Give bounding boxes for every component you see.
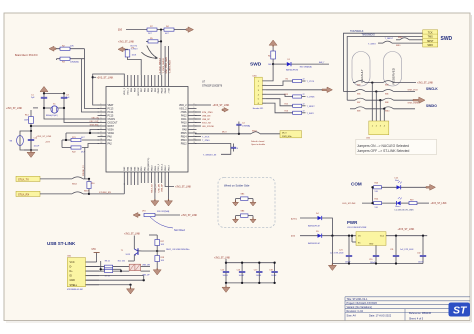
note box Wired on Solder Side [218,178,275,228]
svg-text:PA12: PA12 [181,115,187,118]
wire into regulator [322,235,356,237]
svg-text:VBAT: VBAT [108,104,114,107]
svg-text:5: 5 [101,118,102,120]
net label USB RENUMn [157,250,165,252]
svg-text:Date: 17-AUG-2022: Date: 17-AUG-2022 [369,315,392,318]
svg-text:+3V3_ST_LINK: +3V3_ST_LINK [175,187,191,189]
solder bridge SB12 [251,132,260,134]
wire [40,193,72,195]
svg-text:R2: R2 [286,79,288,81]
leader line Not Fitted [150,217,173,228]
U7 left pin PA1 [98,139,107,141]
svg-text:STLK_RX: STLK_RX [202,123,212,125]
U7 bottom pin PB1 [144,172,146,183]
U7 left pin PA0 [98,136,107,138]
wire from diode node down to CN4 pin1 [262,64,273,81]
ground below R18 [156,262,158,269]
resistor R14 100K [29,117,34,124]
resistor R1 10K vertical [272,47,274,51]
svg-text:VSSA: VSSA [108,129,115,132]
svg-text:VDD_1: VDD_1 [162,163,164,171]
svg-text:VDDA: VDDA [108,132,115,135]
LED LD1 red row [373,186,397,188]
svg-text:SB12: SB12 [252,130,257,132]
resistor R13 22 [293,95,302,98]
svg-text:STLK_RX: STLK_RX [152,183,154,193]
wire collector [138,250,157,252]
wire R17 to node [156,246,158,252]
svg-text:PWR_ENn: PWR_ENn [282,136,292,138]
U7 top pin PA14 [161,75,163,87]
U7 bottom pin VSS_1 [157,172,159,183]
svg-text:Wired on Solder Side: Wired on Solder Side [224,184,250,188]
svg-text:PWR: PWR [347,220,358,225]
svg-text:2: 2 [194,111,195,113]
wires to CN2 [371,83,373,121]
svg-text:MCO: MCO [282,133,287,135]
resistor R5 [148,40,158,43]
svg-text:+3V3_ST_LINK: +3V3_ST_LINK [214,257,230,259]
U7 top pin PB9 [130,75,132,87]
node STLK_TX yellow label [16,176,40,181]
svg-text:SB3: SB3 [357,84,360,86]
capacitor C6 on T_SWDIO [233,144,235,148]
svg-text:PA0: PA0 [108,136,113,139]
svg-text:0: 0 [194,104,195,106]
svg-text:R13: R13 [285,94,288,96]
ground [154,199,156,201]
svg-text:PC15: PC15 [108,116,115,118]
U7 top pin PB3 [154,75,156,87]
svg-text:Default: closed: Default: closed [251,140,264,143]
wire [82,59,100,112]
svg-text:T_JRST_PB4X: T_JRST_PB4X [169,59,171,73]
svg-text:R15: R15 [285,104,288,106]
U7 bottom pin PB11 [154,172,156,183]
wire CN4 pin3 to arrow [266,89,322,91]
wires below U7 bottom pins [123,183,125,185]
svg-text:GND: GND [369,243,374,245]
wire [157,29,164,31]
resistor R18 10K [155,256,160,262]
connector CN2 yellow [369,121,389,135]
power U5V symbol [96,253,98,263]
wire joining LED rows [372,187,374,203]
wire CN4 pin4 [266,94,293,96]
capacitor C4 1nF N/A [238,122,240,125]
svg-text:TMS: TMS [428,36,433,39]
net USB_DP stub [195,118,201,120]
vertical net wire STLINK_TX [84,160,86,179]
svg-text:+3V3_ST_LINK: +3V3_ST_LINK [398,228,415,231]
svg-text:SWO: SWO [427,44,433,47]
svg-text:STLINK_TX: STLINK_TX [83,165,85,176]
svg-text:T_JTDO: T_JTDO [131,49,139,51]
ground [235,201,237,203]
wire En [351,236,353,242]
wire to arrow [174,29,186,31]
capacitor C17 100nF [258,263,260,272]
svg-text:SB5: SB5 [357,93,360,95]
svg-text:C6: C6 [236,148,238,150]
resistor R21 4K7 [82,139,99,141]
svg-text:USB_DM: USB_DM [158,184,160,193]
svg-text:Jumpers ON --> NUCLEO Selecte: Jumpers ON --> NUCLEO Selected [357,144,409,148]
svg-text:BAT60JFILM: BAT60JFILM [286,68,298,71]
svg-text:VSS_3: VSS_3 [128,87,130,95]
svg-text:Board Ident: PC13=0: Board Ident: PC13=0 [15,54,38,57]
wire [158,40,161,42]
U7 bottom pin PB10 [151,172,153,183]
power label +3V3_ST_LINK at VDD_1 [165,183,174,187]
power arrow at VDD_2 label [222,108,229,113]
power port arrow above R1 [272,45,274,47]
svg-text:USB_DM: USB_DM [202,116,211,118]
svg-text:22: 22 [303,79,305,81]
svg-text:Green: Green [395,205,400,208]
svg-text:+3V3_ST_LINK: +3V3_ST_LINK [97,77,114,80]
wire [40,178,72,180]
U7 top pin PB7 [140,75,142,87]
wire CN4 pin2 [266,81,293,85]
U7 right pin PA11 [188,118,197,120]
svg-text:R10: R10 [91,183,94,185]
U7 bottom pin PA4 [127,172,129,183]
svg-text:22: 22 [303,104,305,106]
wire R6 to BOOT0 pin [128,57,142,75]
svg-text:SWCLK: SWCLK [426,87,438,91]
svg-text:Variant: [No Variations]: Variant: [No Variations] [347,306,373,309]
svg-text:JTMS: JTMS [180,112,187,114]
wire SHELL [86,284,131,286]
svg-text:Title: STLINK-V2-1: Title: STLINK-V2-1 [347,298,368,301]
ST logo [449,303,471,317]
ground caps bank [225,283,227,286]
svg-text:M701B08E-05-SM: M701B08E-05-SM [67,289,83,291]
svg-text:22: 22 [303,94,305,96]
U7 left pin VDDA [98,132,107,134]
U7 top pin PA15 [157,75,159,87]
svg-text:ID: ID [70,275,73,278]
svg-text:SB19: SB19 [396,45,400,47]
svg-text:USB_DM: USB_DM [142,264,150,266]
wire crossover strokes [141,46,156,59]
ESD protection USBLC6 [129,264,140,270]
svg-text:TCK/SWCLK: TCK/SWCLK [350,31,364,33]
svg-text:JTCK: JTCK [168,87,170,93]
svg-text:STM_JTCK: STM_JTCK [408,90,419,92]
svg-text:PB11: PB11 [155,165,157,171]
svg-text:SB6: SB6 [385,93,388,95]
svg-text:100K: 100K [132,54,137,56]
svg-text:C32: C32 [417,253,420,255]
net label T_SWDIO_IN text [195,144,231,155]
svg-text:T_SWO: T_SWO [368,44,376,46]
resistor R22 4K7 [82,144,99,148]
capacitor C16 100nF [241,263,243,272]
power port right arrow 5V row [186,27,194,33]
resistor R2 22 [293,79,302,82]
U7 top pin PB4 [151,75,153,87]
diode LD2 green [397,201,401,205]
svg-text:Not Fitted: Not Fitted [174,229,185,232]
svg-text:VSS_1: VSS_1 [158,163,160,171]
row3 arrow [413,97,425,103]
capacitor C32 output 2 [422,236,424,256]
svg-text:PA11: PA11 [181,118,187,121]
svg-text:PA12_ON USB RENUMn: PA12_ON USB RENUMn [166,248,190,251]
U7 bottom pin VDD_1 [161,172,163,183]
U7 right pin JTMS [188,111,197,113]
svg-text:SB10: SB10 [385,111,389,113]
svg-text:1: 1 [194,107,195,109]
U7 left pin PC14 [98,111,107,113]
ground wire VSS_1 [154,183,156,199]
U7 right pin PB15 [188,132,197,134]
ground rail PWR [332,263,423,265]
svg-text:6: 6 [101,121,102,123]
ground wire 2 [168,183,170,199]
svg-text:4: 4 [194,118,195,120]
wire 5V row [126,29,147,31]
svg-text:BAT60JFILM: BAT60JFILM [308,224,320,227]
svg-text:10: 10 [101,135,103,137]
svg-text:VDD_3: VDD_3 [124,87,126,95]
svg-text:PC14: PC14 [108,112,115,114]
svg-text:PB15: PB15 [181,133,187,135]
U7 right pin VDD_2 [188,104,197,106]
U7 left pin OSCIN [98,118,107,120]
svg-text:C18: C18 [269,270,272,272]
svg-text:BAT60JFILM: BAT60JFILM [308,242,320,245]
U7 top pin VDD_3 [123,75,125,87]
svg-text:Jumpers OFF --> ST-LINK Select: Jumpers OFF --> ST-LINK Selected [357,149,409,153]
svg-text:T_JTCK: T_JTCK [202,137,210,139]
wire [57,58,85,60]
svg-text:ST: ST [453,305,468,317]
solder bridge row SB9/SB10 [350,108,355,110]
U7 right pin PA10 [188,122,197,124]
wire [133,236,135,250]
U7 top pin VSS_3 [127,75,129,87]
svg-text:OSC_IN: OSC_IN [91,117,99,119]
U7 left pin PC13 [98,108,107,110]
U7 bottom pin PA6 [134,172,136,183]
power port arrow CN4 [322,87,333,93]
solder bridge arc RX [72,192,83,194]
wire [56,48,85,50]
svg-text:Project: NUCLEO-XXXXRX: Project: NUCLEO-XXXXRX [347,302,378,305]
svg-text:8: 8 [101,128,102,130]
svg-text:100nF: 100nF [418,261,424,263]
svg-text:USB ST-LINK: USB ST-LINK [47,241,76,246]
svg-text:100nF: 100nF [34,146,40,148]
svg-text:9: 9 [194,135,195,137]
power port above crystal caps [43,91,45,93]
svg-text:PB10: PB10 [151,165,153,171]
ground [252,201,254,203]
node STLK_RX yellow label [16,191,40,196]
svg-text:PA9: PA9 [182,125,187,128]
resistor R20 2K2 N/A [144,213,155,216]
connector SWD yellow block [423,30,438,47]
svg-text:PB13: PB13 [168,165,170,171]
net LED_STLINK stub [195,125,201,127]
svg-text:VCC: VCC [70,261,75,264]
svg-text:SB14: SB14 [72,183,77,185]
crystal X1 8MHz [51,106,58,113]
wire crystal top rail [44,92,64,94]
power label +3V3_ST_LINK at VDD_2 [195,104,211,106]
net T_JTCK stub [195,136,201,138]
resistor R19 row2 [409,202,417,205]
regulator output wire [386,235,427,237]
resistor R10 vertical [87,182,91,189]
resistor R3 10K N/A [60,57,70,60]
svg-text:100nF: 100nF [223,275,229,277]
wire top pin verticals [164,46,166,75]
U7 right pin PA12 [188,115,197,117]
svg-text:OSC_OUT: OSC_OUT [89,121,99,123]
svg-text:[5V]: [5V] [291,236,295,238]
svg-text:11: 11 [101,139,103,141]
svg-text:Red: Red [395,180,399,182]
svg-text:SB9: SB9 [357,111,360,113]
capacitor C18 100nF [274,263,276,272]
svg-text:VSS_2: VSS_2 [179,109,187,111]
svg-text:Revision: C-04: Revision: C-04 [347,310,364,313]
svg-text:1nF[N/A]: 1nF[N/A] [242,125,250,128]
U7 bottom pin PB13 [168,172,170,183]
svg-text:+3V3_ST_LINK: +3V3_ST_LINK [124,233,140,235]
wire [146,40,148,42]
svg-text:Sheet: 4 of 5: Sheet: 4 of 5 [409,318,424,321]
svg-text:SB18: SB18 [398,37,402,39]
svg-text:PA15: PA15 [157,87,160,93]
capacitor C21 input [348,236,350,256]
svg-text:COM: COM [351,182,362,187]
svg-text:U3 LD39050PU33R: U3 LD39050PU33R [347,227,367,229]
diode LD1 [397,185,401,189]
wire DM out [141,266,150,268]
U7 left pin VBAT [98,104,107,106]
wire emitter down [133,255,135,261]
svg-text:C17: C17 [254,270,257,272]
resistor R8 22 on D- [86,266,105,268]
svg-text:+3V3_ST_LINK: +3V3_ST_LINK [431,203,447,205]
svg-text:PB13: PB13 [181,140,187,142]
svg-text:SWDIO: SWDIO [426,104,437,108]
diode D1 BAT60JFILM [273,63,287,65]
svg-text:LED_STLINK: LED_STLINK [342,203,356,205]
ground [252,218,254,220]
resistor R4 4K7 [164,28,174,31]
svg-text:5: 5 [194,121,195,123]
svg-text:T_NRST: T_NRST [307,106,316,108]
svg-text:+3V3_ST_LINK: +3V3_ST_LINK [181,215,197,217]
note box jumpers [356,139,437,154]
U7 top pin PA13 [164,75,166,87]
svg-text:SWD: SWD [441,36,453,42]
svg-text:PB2(BOOT1): PB2(BOOT1) [148,158,150,171]
U7 left pin OSCOUT [98,122,107,124]
svg-text:LD_BICOLOR_CMS: LD_BICOLOR_CMS [395,210,415,212]
svg-text:Size: A4: Size: A4 [347,315,357,318]
svg-text:SB8: SB8 [385,102,388,104]
wire ID [86,275,144,277]
resistor R7 2K7 [147,28,157,31]
wire CN4 pin6 [266,103,293,113]
wire MCO from PB15 [195,133,251,135]
U7 left pin VSSA [98,129,107,131]
svg-text:2: 2 [101,107,102,109]
regulator U3 yellow box [356,232,386,246]
svg-text:STM_JTMS: STM_JTMS [408,102,419,104]
ground [168,199,170,201]
svg-text:8: 8 [194,132,195,134]
resistor R16 22 [293,111,302,114]
U7 top pin PB6 [144,75,146,87]
wire NRST [30,124,32,151]
diode D5 [300,235,318,237]
svg-text:PA2: PA2 [108,143,113,146]
svg-text:1uF_STR_0603: 1uF_STR_0603 [400,249,413,251]
U7 bottom pin PB2(BOOT1) [147,172,149,183]
wire VDDA [66,132,99,134]
caps bank rails [226,262,275,264]
svg-text:C15: C15 [221,270,224,272]
title block frame [345,297,470,321]
svg-text:PB12: PB12 [181,144,187,146]
svg-text:R31 5R6[N/A]: R31 5R6[N/A] [300,66,312,69]
U7 right pin PA8 [188,129,197,131]
U7 right pin PB14 [188,136,197,138]
wire to label [225,259,227,263]
svg-text:STLINK_RX: STLINK_RX [99,192,111,194]
svg-text:BOOT0: BOOT0 [138,87,140,95]
net T_JTMS stub [195,139,201,141]
svg-text:TCK: TCK [428,31,433,34]
svg-text:MCO: MCO [222,132,227,134]
power port +3V3 left arrow [49,46,56,51]
svg-text:STM_JTDO_SWO: STM_JTDO_SWO [166,57,168,74]
U7 left pin PC15 [98,115,107,117]
solder bridge SB13 ellipse [20,131,31,150]
svg-text:Header 6X1: Header 6X1 [253,108,265,110]
svg-text:SB4: SB4 [385,84,388,86]
U7 bottom pin PA5 [130,172,132,183]
svg-text:AIN_7: AIN_7 [319,61,324,64]
U7 bottom pin PA7 [137,172,139,183]
U7 right pin PB12 [188,143,197,145]
svg-text:PA10: PA10 [181,122,187,125]
capacitor C15 100nF [225,263,227,272]
svg-text:100nF: 100nF [256,275,262,277]
capacitor C3 2pF [63,93,65,97]
capacitor C14 100nF on NRST [28,139,34,140]
svg-text:PA1: PA1 [108,139,113,142]
resistor R11 1K5 pullup [100,261,102,269]
diode D4 [300,217,318,219]
resistor R17 10K [155,240,160,246]
capacitor C1 2pF [43,93,45,97]
svg-text:+3V3_ST_LINK: +3V3_ST_LINK [417,83,433,85]
svg-text:10K[N/A]: 10K[N/A] [70,60,79,63]
svg-text:Open to disable: Open to disable [251,143,266,146]
svg-text:GND: GND [70,279,76,282]
resistor R6 100K vertical [125,50,130,57]
wire OSCOUT [58,107,64,109]
